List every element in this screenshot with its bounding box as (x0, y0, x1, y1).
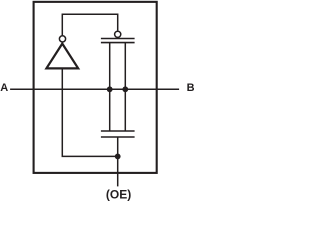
transistor Q2 gate bar (101, 136, 135, 138)
wire Q1/Q2 right source-drain lead (124, 43, 126, 131)
svg-text:B: B (187, 82, 194, 94)
node junction dot OE (115, 154, 121, 160)
wire inverter output to top gate (62, 14, 117, 35)
svg-text:A: A (0, 82, 8, 94)
svg-text:(OE): (OE) (106, 187, 131, 201)
wire inverter input down and right to OE node (62, 69, 117, 156)
transistor Q1 top P-channel: gate bubble (115, 31, 121, 37)
inverter U1 (46, 36, 78, 69)
transistor Q1 gate bar (101, 38, 135, 40)
transistor Q2 bottom N-channel: channel bar (101, 130, 135, 132)
box (device outline) (34, 2, 157, 173)
node junction dot right on A-B (122, 86, 128, 92)
transistor Q1 channel bar (101, 42, 135, 44)
node junction dot left on A-B (107, 86, 113, 92)
wire Q2 gate lead down to OE (117, 137, 119, 186)
wire A-B horizontal (10, 88, 179, 90)
wire Q1/Q2 left source-drain lead (109, 43, 111, 131)
